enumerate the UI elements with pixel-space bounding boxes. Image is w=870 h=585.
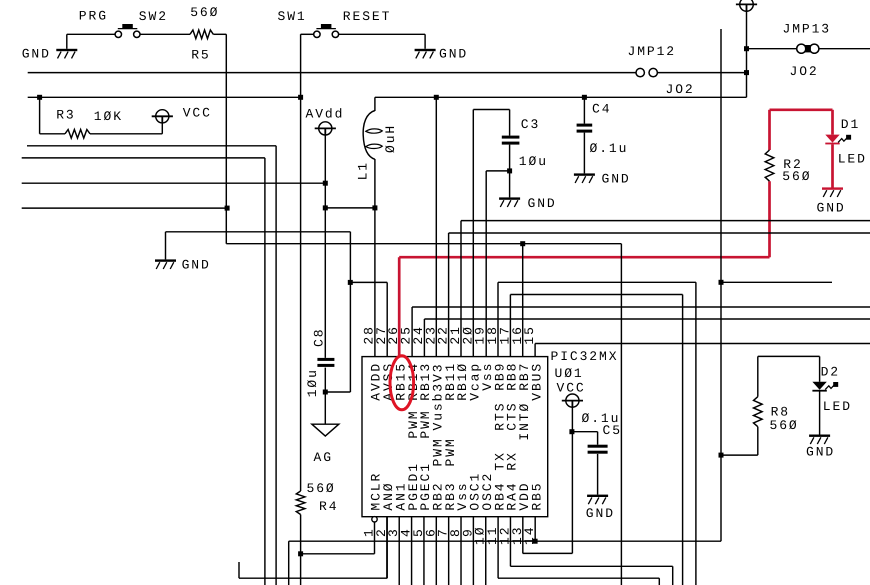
svg-text:GND: GND [439, 46, 468, 61]
svg-text:INTØ: INTØ [517, 402, 532, 441]
svg-text:RX: RX [505, 451, 520, 470]
svg-text:RESET: RESET [343, 9, 392, 24]
svg-text:R5: R5 [191, 47, 210, 62]
svg-text:GND: GND [586, 506, 615, 521]
svg-text:D2: D2 [821, 365, 840, 380]
svg-text:JO2: JO2 [790, 64, 819, 79]
svg-text:JO2: JO2 [666, 82, 695, 97]
svg-text:GND: GND [806, 445, 835, 460]
svg-text:GND: GND [22, 46, 51, 61]
svg-text:56Ø: 56Ø [770, 418, 799, 433]
svg-text:JMP12: JMP12 [628, 44, 677, 59]
svg-text:JMP13: JMP13 [783, 21, 832, 36]
svg-text:LED: LED [823, 399, 852, 414]
svg-text:AVdd: AVdd [306, 106, 345, 121]
svg-text:LED: LED [838, 152, 867, 167]
svg-text:GND: GND [602, 172, 631, 187]
svg-text:PIC32MX: PIC32MX [551, 349, 619, 364]
svg-text:1ØK: 1ØK [94, 109, 123, 124]
svg-text:C5: C5 [603, 423, 622, 438]
svg-text:ØuH: ØuH [383, 124, 398, 153]
svg-text:GND: GND [182, 257, 211, 272]
svg-text:C8: C8 [311, 328, 326, 347]
svg-text:VCC: VCC [183, 106, 212, 121]
svg-text:L1: L1 [356, 161, 371, 180]
svg-text:VBUS: VBUS [529, 362, 544, 401]
svg-text:RB5: RB5 [529, 481, 544, 510]
svg-text:PRG: PRG [79, 8, 108, 23]
svg-text:56Ø: 56Ø [190, 5, 219, 20]
svg-text:1Øu: 1Øu [305, 368, 320, 397]
svg-text:1Øu: 1Øu [519, 154, 548, 169]
svg-text:GND: GND [817, 200, 846, 215]
svg-text:SW2: SW2 [139, 9, 168, 24]
svg-text:UØ1: UØ1 [555, 366, 584, 381]
svg-text:R4: R4 [319, 499, 338, 514]
svg-text:C4: C4 [592, 102, 611, 117]
svg-text:56Ø: 56Ø [782, 169, 811, 184]
svg-text:AG: AG [314, 450, 333, 465]
svg-text:15: 15 [522, 325, 537, 344]
svg-text:C3: C3 [521, 117, 540, 132]
svg-text:56Ø: 56Ø [307, 481, 336, 496]
svg-text:VCC: VCC [557, 380, 586, 395]
svg-text:PWM: PWM [443, 437, 458, 466]
svg-text:Ø.1u: Ø.1u [590, 141, 629, 156]
svg-text:D1: D1 [841, 117, 860, 132]
svg-text:R3: R3 [56, 107, 75, 122]
svg-text:GND: GND [528, 196, 557, 211]
svg-text:SW1: SW1 [278, 9, 307, 24]
svg-text:PWM: PWM [418, 409, 433, 438]
